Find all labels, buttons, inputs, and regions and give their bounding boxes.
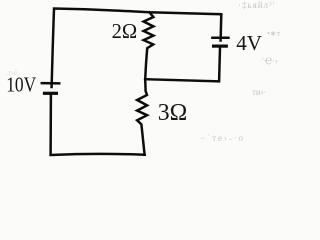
svg-text:3Ω: 3Ω [158,100,188,126]
svg-text:․т›ѐ: ․т›ѐ [5,68,18,77]
svg-text:·‡ьяйл³ʹ: ·‡ьяйл³ʹ [238,0,276,10]
svg-text:4V: 4V [236,31,262,55]
svg-text:2Ω: 2Ω [112,19,138,43]
svg-text:ʹҾ·›: ʹҾ·› [262,56,278,66]
svg-text:•∗т: •∗т [267,29,281,38]
svg-text:ти‹·: ти‹· [252,87,266,97]
svg-text:−˙те›˗·о: −˙те›˗·о [200,133,245,143]
